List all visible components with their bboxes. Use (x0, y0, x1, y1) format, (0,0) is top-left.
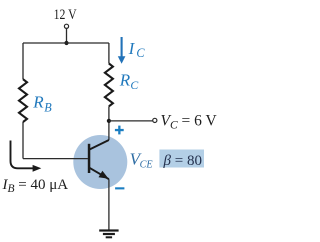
wire base (23, 158, 88, 160)
svg-text:12 V: 12 V (54, 7, 78, 23)
transistor Q1 emitter line (90, 168, 109, 179)
current arrow IC (121, 37, 123, 58)
resistor RC (105, 64, 113, 107)
svg-text:CE: CE (140, 160, 154, 171)
wire to VC terminal (109, 120, 152, 122)
ground (99, 229, 118, 238)
transistor Q1 emitter arrowhead (99, 171, 109, 179)
wire RB bottom (22, 122, 24, 159)
svg-text:B: B (44, 100, 52, 114)
beta box (159, 150, 204, 168)
svg-text:β = 80: β = 80 (163, 153, 202, 169)
wire RC bottom to collector (108, 106, 110, 140)
svg-text:VC = 6 V: VC = 6 V (161, 112, 218, 131)
wire emitter down (108, 179, 110, 229)
polarity minus (115, 187, 124, 189)
svg-text:C: C (136, 46, 145, 60)
wire right vertical to RC (108, 43, 110, 64)
wire supply drop (66, 29, 68, 43)
transistor Q1 collector line (90, 140, 109, 150)
resistor RB (19, 79, 27, 122)
supply terminal (64, 24, 68, 28)
svg-text:R: R (32, 93, 44, 112)
current arrow IB (11, 141, 34, 169)
svg-text:R: R (119, 71, 131, 90)
svg-text:C: C (130, 78, 138, 92)
terminal VC (153, 118, 157, 122)
wire left vertical to RB (22, 43, 24, 79)
wire top horizontal (23, 42, 109, 44)
polarity plus (115, 126, 124, 135)
node supply junction (64, 41, 68, 45)
transistor Q1 body circle (73, 135, 127, 189)
transistor Q1 base bar (88, 144, 91, 173)
node collector junction (107, 119, 111, 123)
